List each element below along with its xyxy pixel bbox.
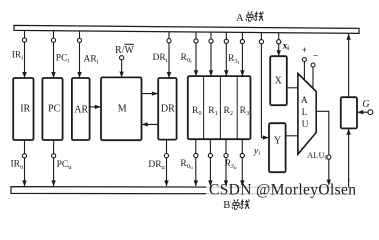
wire R2 input stem <box>225 32 227 76</box>
arrowhead ALU output into B bus <box>327 180 331 186</box>
arrowhead into M right from DR <box>142 122 148 126</box>
label B bus: xian <box>241 200 249 210</box>
register file divider 2 <box>219 77 221 139</box>
node R0_u <box>194 153 198 157</box>
node R3_i <box>240 39 244 43</box>
svg-text:+: + <box>302 45 307 55</box>
node R2_i <box>224 39 228 43</box>
wire G to A bus <box>348 34 350 97</box>
node R3_u <box>240 153 244 157</box>
svg-text:ALU0: ALU0 <box>307 150 327 162</box>
wire R2 output to B bus <box>225 139 227 186</box>
wire minus control into ALU <box>312 67 314 88</box>
arrowhead into G right from control <box>357 110 363 114</box>
svg-text:U: U <box>302 120 309 130</box>
wire X to ALU <box>287 87 298 89</box>
svg-text:ARi: ARi <box>84 55 99 66</box>
wire AR to M <box>90 106 101 108</box>
svg-text:M: M <box>118 104 127 115</box>
arrowhead into M left from AR <box>95 105 101 109</box>
node DR_i <box>167 39 171 43</box>
arrowhead into PC top <box>51 72 55 78</box>
arrowhead R2 out into B bus <box>224 180 228 186</box>
svg-text:X: X <box>275 76 283 87</box>
node IR_i <box>22 38 26 42</box>
svg-text:DRi: DRi <box>152 53 167 64</box>
svg-text:B: B <box>223 200 230 211</box>
wire PC output to B bus <box>53 140 55 186</box>
wire R0 input stem <box>195 32 197 76</box>
wire G control <box>358 111 369 113</box>
svg-text:xi: xi <box>283 40 290 52</box>
wire Y to ALU <box>286 135 298 137</box>
wire ALU output to B bus <box>316 111 329 185</box>
svg-text:DR: DR <box>161 104 175 115</box>
arrowhead into Y left <box>263 135 269 139</box>
label A bus: zong <box>246 11 254 21</box>
arrowhead into X top <box>277 50 281 56</box>
node ALU_0 <box>327 155 331 159</box>
register file divider 3 <box>236 77 238 139</box>
node y_i <box>259 40 263 44</box>
register DR <box>158 78 176 140</box>
arrowhead DR out into B bus <box>164 180 168 186</box>
watermark CSDN pill <box>206 181 359 200</box>
wire R1 input stem <box>210 32 212 76</box>
node R2_u <box>224 153 228 157</box>
svg-text:A: A <box>301 96 308 106</box>
arrowhead R3 out into B bus <box>240 180 244 186</box>
register file divider 1 <box>203 77 205 139</box>
node PC_u <box>52 154 56 158</box>
op-amp ALU body <box>298 74 316 155</box>
svg-text:IR: IR <box>20 104 30 115</box>
label A bus: xian <box>255 12 263 22</box>
wire DR output to B bus <box>166 140 168 186</box>
arrowhead into R1 <box>209 70 213 76</box>
wire R0 output to B bus <box>195 139 197 186</box>
arrowhead into M top <box>119 72 123 78</box>
node minus <box>311 63 315 67</box>
svg-text:CSDN @MorleyOlsen: CSDN @MorleyOlsen <box>209 181 356 198</box>
node R/W <box>120 56 124 60</box>
wire X input stem <box>278 33 280 56</box>
svg-text:R3i: R3i <box>228 54 240 66</box>
wire B bus to G lower segment <box>348 178 350 187</box>
node plus <box>302 58 306 62</box>
node PC_i <box>51 38 55 42</box>
register IR <box>13 78 33 140</box>
svg-text:L: L <box>302 108 308 118</box>
node R1_u <box>208 153 212 157</box>
arrowhead R0 out into B bus <box>194 180 198 186</box>
wire Y input from A bus <box>261 33 268 138</box>
wire M to DR <box>142 93 158 95</box>
svg-text:AR: AR <box>74 105 88 116</box>
register PC <box>42 78 62 140</box>
svg-text:R0i: R0i <box>181 53 193 65</box>
svg-text:G: G <box>362 99 369 110</box>
arrowhead into R3 <box>240 70 244 76</box>
wire R1 output to B bus <box>209 139 211 186</box>
arrowhead into AR top <box>77 72 81 78</box>
svg-text:R0u: R0u <box>180 159 193 171</box>
arrowhead into R0 <box>194 70 198 76</box>
node R1_i <box>209 39 213 43</box>
arrowhead into DR top <box>167 72 171 78</box>
B bus <box>11 187 350 194</box>
wire DR input stem <box>168 32 170 78</box>
svg-text:PCi: PCi <box>56 54 70 65</box>
node IR_u <box>22 154 26 158</box>
wire plus control into ALU <box>303 62 305 80</box>
node x_i <box>277 40 281 44</box>
label B bus: zong <box>232 199 240 209</box>
svg-text:PC: PC <box>48 104 61 115</box>
wire PC input stem <box>53 31 55 78</box>
svg-text:yi: yi <box>253 146 260 157</box>
latch X <box>270 56 287 105</box>
arrowhead PC out into B bus <box>51 180 55 186</box>
arrowhead IR out into B bus <box>22 180 26 186</box>
svg-text:Y: Y <box>274 136 281 147</box>
arrowhead into A bus from G <box>346 34 350 40</box>
arrowhead into DR left from M <box>152 91 158 95</box>
svg-text:A: A <box>236 13 244 24</box>
gate G <box>341 97 357 128</box>
wire B bus to G <box>348 129 350 187</box>
node G control <box>368 110 373 115</box>
wire DR to M <box>142 123 158 125</box>
arrowhead into IR top <box>22 72 26 78</box>
wire AR input stem <box>79 31 81 78</box>
svg-text:R/W: R/W <box>115 45 134 56</box>
arrowhead R1 out into B bus <box>208 180 212 186</box>
memory M <box>101 77 142 140</box>
latch Y <box>269 123 286 172</box>
node R0_i <box>194 39 198 43</box>
wire R/W control into M <box>121 60 123 77</box>
arrowhead into G bottom <box>346 129 350 135</box>
node DR_u <box>164 154 168 158</box>
svg-text:DRu: DRu <box>148 160 165 171</box>
svg-text:PCu: PCu <box>57 160 73 171</box>
wire R3 input stem <box>241 32 243 75</box>
register AR <box>72 78 90 140</box>
svg-text:−: − <box>313 51 318 61</box>
node AR_i <box>77 38 81 42</box>
svg-text:IRu: IRu <box>10 160 24 171</box>
register file R0-R3 <box>188 76 251 139</box>
wire IR output to B bus <box>24 140 26 186</box>
A bus <box>14 25 359 33</box>
arrowhead into R2 <box>224 70 228 76</box>
svg-text:IRi: IRi <box>12 51 24 62</box>
wire R3 output to B bus <box>241 139 243 186</box>
wire IR input stem <box>24 31 26 78</box>
